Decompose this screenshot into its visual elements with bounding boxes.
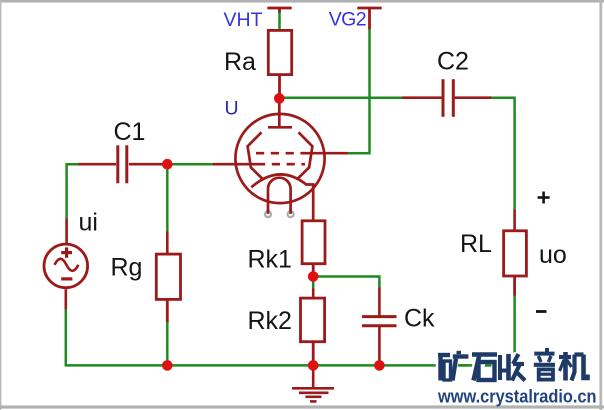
node K (cathode junction) <box>308 271 319 282</box>
watermark char yin <box>534 348 555 380</box>
resistor Rg <box>156 254 180 323</box>
svg-text:Rg: Rg <box>111 254 143 282</box>
wire C1 to node B <box>129 163 163 166</box>
svg-text:uo: uo <box>539 241 567 269</box>
wire node K to Rk2 <box>312 280 315 299</box>
tube U envelope <box>235 114 324 203</box>
wire VHT to Ra <box>278 12 281 31</box>
svg-text:Rk1: Rk1 <box>248 246 292 274</box>
watermark <box>437 348 596 407</box>
tube U beam plate right <box>297 132 313 179</box>
watermark char shi <box>472 355 497 381</box>
source ui <box>44 244 88 288</box>
svg-text:RL: RL <box>460 230 492 258</box>
capacitor C2 <box>443 79 453 117</box>
svg-text:VHT: VHT <box>224 9 263 31</box>
tube U cathode <box>251 174 306 187</box>
capacitor C1 <box>118 145 127 183</box>
wire C2 to RL <box>455 98 515 232</box>
node Rk2 bottom <box>308 360 319 371</box>
tube U heater <box>268 178 291 212</box>
svg-text:C1: C1 <box>114 118 146 146</box>
tube U anode <box>268 99 292 127</box>
watermark char ji <box>559 352 588 381</box>
node B (grid junction) <box>162 159 173 170</box>
wire ui to bottom rail <box>66 289 168 365</box>
wire node B to Rg <box>166 168 169 255</box>
watermark char kuang <box>438 353 468 381</box>
svg-text:U: U <box>225 98 239 120</box>
tube U cathode lead <box>306 185 314 222</box>
resistor RL <box>504 231 527 297</box>
wire Ck to bottom rail <box>378 326 381 365</box>
resistor Ra <box>268 30 291 99</box>
wire VG2 to screen grid <box>303 29 370 153</box>
svg-text:Ra: Ra <box>224 48 256 76</box>
terminal VHT <box>267 8 291 13</box>
tube U beam plate left <box>248 132 264 179</box>
node Rg bottom <box>162 360 173 371</box>
wire C1 to ui corner <box>67 164 116 245</box>
svg-text:VG2: VG2 <box>329 9 366 31</box>
tube U screen grid <box>256 152 304 155</box>
label + <box>538 192 550 204</box>
wire grid node to tube <box>171 163 213 166</box>
watermark char shou <box>500 354 525 381</box>
svg-text:Rk2: Rk2 <box>248 307 292 335</box>
capacitor Ck <box>362 317 397 326</box>
svg-text:Ck: Ck <box>404 305 435 333</box>
resistor Rk1 <box>302 221 325 272</box>
node Ck bottom <box>374 360 385 371</box>
wire RL to bottom rail <box>513 296 516 367</box>
bottom rail wire <box>166 364 515 367</box>
node A (anode junction) <box>274 93 285 104</box>
tube U heater pins <box>265 209 294 217</box>
label - <box>536 310 547 313</box>
wire node K to Ck <box>317 277 379 318</box>
wire Rg to bottom rail <box>166 322 169 365</box>
svg-text:ui: ui <box>79 208 98 236</box>
wire glimpses through watermark <box>458 364 492 367</box>
resistor Rk2 <box>301 298 325 365</box>
ground <box>292 365 334 401</box>
terminal VG2 <box>357 8 381 30</box>
svg-text:C2: C2 <box>437 48 469 76</box>
wire node A to C2 <box>283 96 442 99</box>
svg-text:www.crystalradio.cn: www.crystalradio.cn <box>437 387 596 407</box>
tube U control grid <box>212 163 305 166</box>
frame (decorative) <box>0 0 604 3</box>
